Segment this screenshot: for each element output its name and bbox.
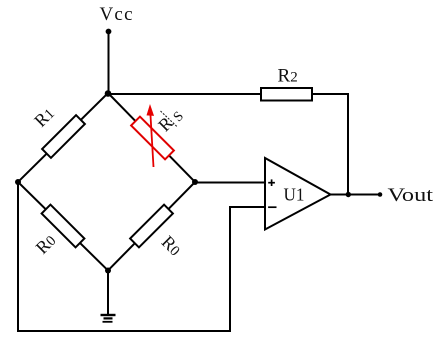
svg-text:U1: U1 <box>284 185 305 205</box>
svg-text:Vcc: Vcc <box>100 4 133 25</box>
svg-text:Vout: Vout <box>388 185 434 206</box>
svg-text:R2: R2 <box>278 66 298 87</box>
